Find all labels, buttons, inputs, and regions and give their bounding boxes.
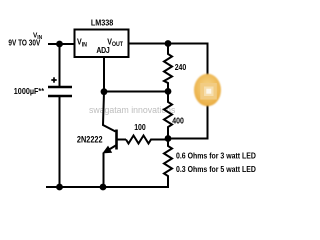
wire: emitter to ground rail <box>103 153 105 188</box>
svg-text:0.3 Ohms for 5 watt LED: 0.3 Ohms for 5 watt LED <box>176 164 256 174</box>
node: ADJ / collector junction <box>101 88 108 95</box>
wire: lamp top drop <box>207 44 209 85</box>
wire: capacitor top lead <box>59 44 61 87</box>
wire: base lead <box>117 139 126 141</box>
node: R1/R2 divider tap <box>165 88 172 95</box>
resistor R3 100 <box>126 136 168 144</box>
wire: input from source to regulator <box>48 43 75 45</box>
svg-text:2N2222: 2N2222 <box>77 134 103 145</box>
svg-text:9V TO 30V: 9V TO 30V <box>8 38 40 48</box>
wire: ground rail <box>46 186 169 188</box>
node: feedback node (R2/R3/R4/lamp) <box>165 135 172 142</box>
node: input/capacitor junction <box>56 41 63 48</box>
wire: ADJ to divider tap <box>104 91 168 93</box>
wire: ADJ pin down <box>103 57 105 92</box>
capacitor C1 bottom plate <box>48 95 72 98</box>
capacitor C1 1000uF top plate <box>48 86 72 89</box>
svg-text:0.6 Ohms for 3 watt LED: 0.6 Ohms for 3 watt LED <box>176 151 256 161</box>
transistor Q1 emitter with arrow <box>108 145 117 151</box>
node: output rail / R1 top <box>165 40 172 47</box>
svg-text:ADJ: ADJ <box>96 45 109 55</box>
node: capacitor/ground <box>56 184 63 191</box>
node: emitter/ground <box>100 184 107 191</box>
resistor R1 240 <box>164 44 172 92</box>
transistor Q1 base bar <box>115 130 118 150</box>
transistor Q1 2N2222 collector lead <box>103 92 116 132</box>
svg-text:400: 400 <box>172 116 184 126</box>
wire: lamp bottom drop <box>207 97 209 139</box>
svg-text:1000µF**: 1000µF** <box>14 86 45 96</box>
resistor R4 current sense <box>164 139 172 188</box>
wire: lamp bottom to feedback node <box>168 138 209 140</box>
svg-text:LM338: LM338 <box>91 18 113 27</box>
wire: capacitor bottom lead <box>59 96 61 187</box>
resistor R2 400 <box>164 91 172 139</box>
capacitor plus sign <box>51 77 56 82</box>
op-amp U1 LM338 regulator box <box>75 30 129 58</box>
wire: VOUT to lamp corner <box>129 43 209 45</box>
svg-text:240: 240 <box>175 62 187 72</box>
lamp LED bulb <box>194 72 221 108</box>
svg-text:100: 100 <box>134 122 146 132</box>
